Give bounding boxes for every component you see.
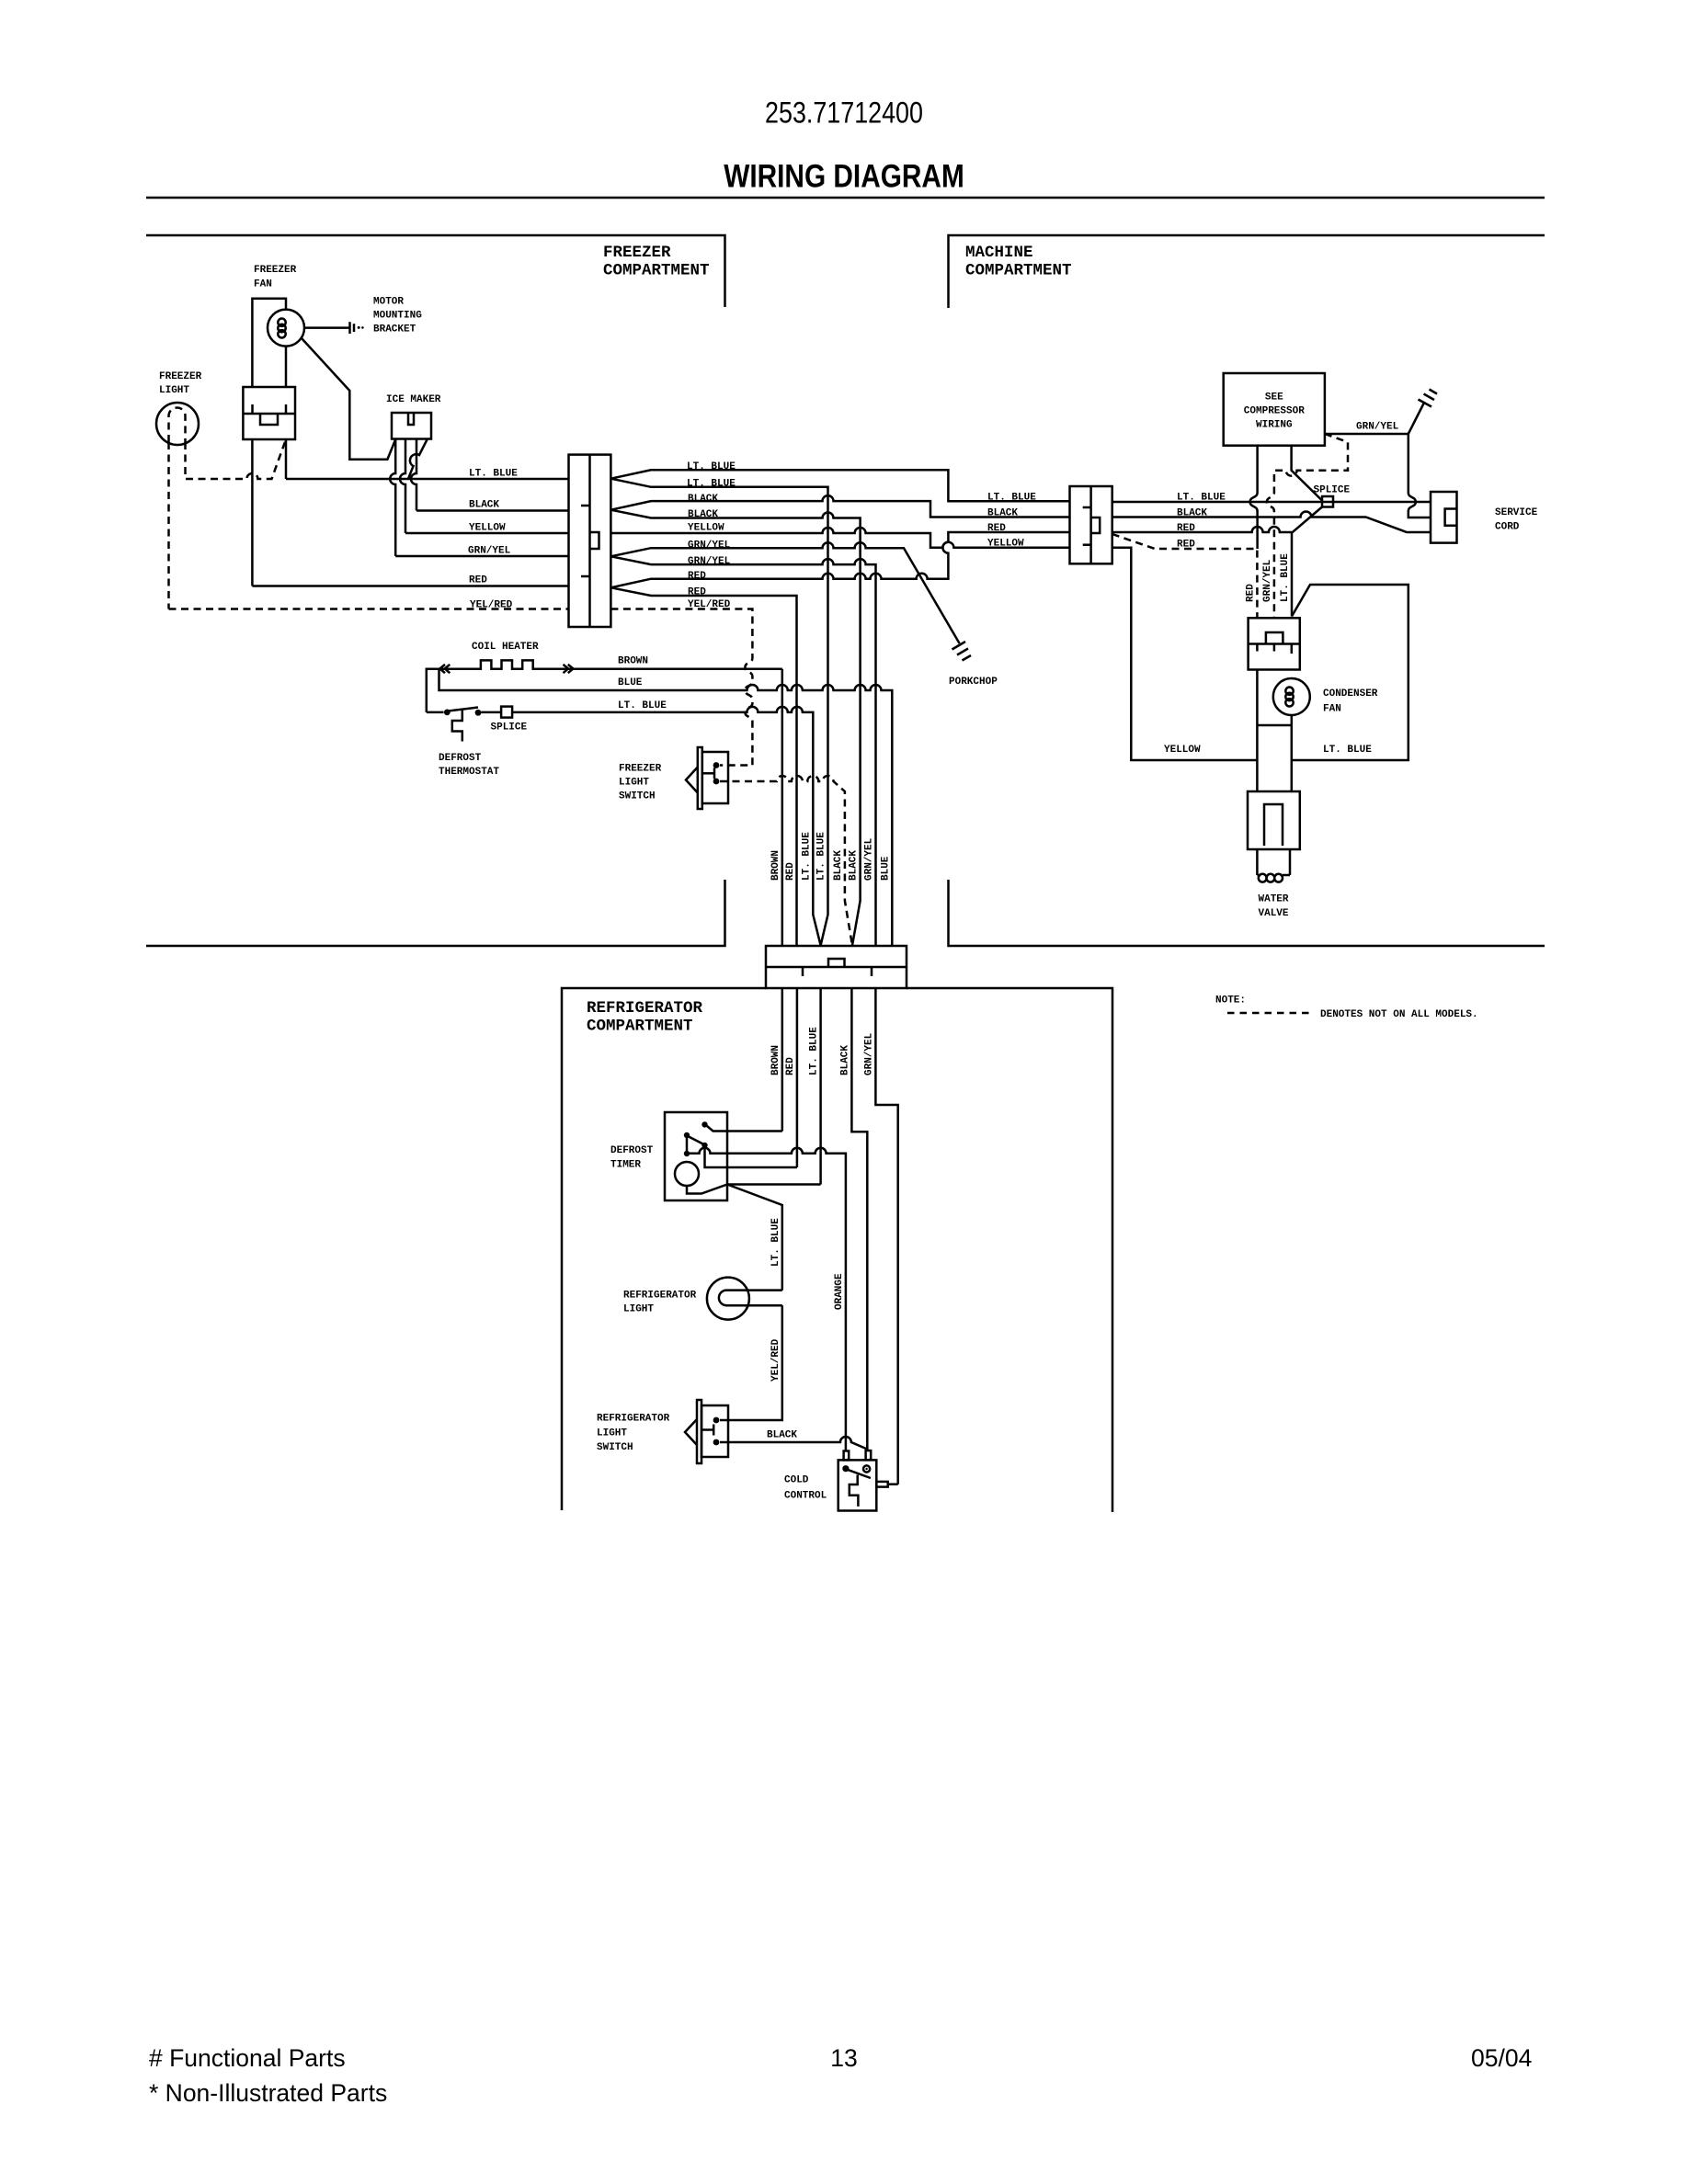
label LT. BLUE row2 — [687, 479, 736, 490]
title model number — [765, 97, 923, 130]
wire RED row1 to machine connector — [610, 532, 1069, 587]
label ORANGE rotated — [834, 1273, 845, 1310]
svg-text:BLACK: BLACK — [833, 850, 844, 881]
service cord connector — [1431, 492, 1457, 543]
label YELLOW machine left — [987, 539, 1024, 550]
svg-text:COMPARTMENT: COMPARTMENT — [965, 262, 1072, 280]
note dashed sample — [1227, 1012, 1314, 1015]
svg-text:FAN: FAN — [1323, 704, 1341, 715]
svg-text:GRN/YEL: GRN/YEL — [863, 1032, 874, 1075]
svg-text:ICE MAKER: ICE MAKER — [386, 394, 441, 405]
label BLACK — [469, 500, 499, 511]
svg-text:NOTE:: NOTE: — [1215, 995, 1246, 1007]
machine compartment bottom border — [949, 880, 1545, 946]
svg-text:WIRING: WIRING — [1256, 420, 1293, 431]
label RED machine right — [1177, 523, 1195, 534]
ice maker — [392, 413, 431, 439]
label BROWN rotated upper — [770, 850, 781, 881]
ice maker pin 2 wire to YELLOW — [400, 439, 405, 533]
wire RED to connector — [252, 585, 568, 587]
svg-text:LT. BLUE: LT. BLUE — [770, 1218, 781, 1267]
label DEFROST THERMOSTAT — [439, 753, 499, 778]
svg-text:COMPARTMENT: COMPARTMENT — [603, 262, 710, 280]
label PORKCHOP — [949, 677, 998, 688]
label ICE MAKER — [386, 394, 441, 405]
label BLUE — [618, 677, 643, 688]
wire defrost timer to ORANGE — [687, 1148, 846, 1451]
svg-text:CONDENSER: CONDENSER — [1323, 688, 1378, 700]
svg-text:ORANGE: ORANGE — [834, 1273, 845, 1310]
wire YELLOW enclosure — [1112, 548, 1258, 760]
wire YELLOW to connector — [405, 532, 569, 535]
wire YELLOW to machine connector — [610, 528, 1069, 548]
machine connector J2 — [1070, 486, 1112, 563]
freezer light lamp — [156, 403, 199, 445]
svg-text:BLACK: BLACK — [987, 508, 1018, 519]
label MOTOR MOUNTING BRACKET — [373, 297, 422, 336]
svg-text:MOUNTING: MOUNTING — [373, 311, 422, 322]
wire BLACK row2 down to refrigerator — [610, 510, 860, 946]
label LT. BLUE rotated — [1280, 553, 1291, 602]
svg-text:BRACKET: BRACKET — [373, 324, 416, 336]
svg-text:LT. BLUE: LT. BLUE — [469, 469, 518, 480]
svg-text:FREEZER: FREEZER — [159, 371, 202, 382]
svg-text:VALVE: VALVE — [1259, 908, 1289, 919]
label YEL/RED row — [688, 599, 731, 610]
svg-text:RED: RED — [688, 571, 706, 582]
wire compressor to splice — [1292, 446, 1322, 501]
svg-text:TIMER: TIMER — [610, 1160, 641, 1171]
wire GRN/YEL row2 down to refrigerator — [610, 556, 875, 946]
svg-text:BLACK: BLACK — [849, 850, 860, 881]
svg-text:DEFROST: DEFROST — [610, 1145, 654, 1156]
defrost thermostat switch — [444, 708, 481, 742]
label RED rotated — [1245, 584, 1256, 602]
footer date — [1471, 2044, 1532, 2072]
wire YEL/RED to light switch — [720, 1305, 782, 1420]
label RED row2 — [688, 587, 706, 598]
freezer fan housing — [252, 299, 286, 387]
label LT. BLUE rotated lower — [809, 1027, 820, 1075]
wire splice to LT. BLUE condenser lead — [1292, 507, 1322, 617]
label REFRIGERATOR LIGHT — [623, 1291, 697, 1315]
svg-text:GRN/YEL: GRN/YEL — [1356, 422, 1399, 433]
svg-text:BLACK: BLACK — [469, 500, 499, 511]
ice maker pin 3 wire to BLACK — [411, 439, 416, 511]
label FREEZER LIGHT — [159, 371, 202, 396]
wire defrost timer to BROWN — [707, 1126, 782, 1132]
svg-text:YELLOW: YELLOW — [469, 523, 506, 534]
svg-text:YEL/RED: YEL/RED — [770, 1338, 781, 1382]
label FREEZER FAN — [254, 265, 297, 290]
label RED rotated lower — [785, 1057, 796, 1075]
refrigerator compartment border — [562, 988, 1112, 1512]
label DEFROST TIMER — [610, 1145, 654, 1171]
label YEL/RED — [470, 600, 513, 611]
cold control — [838, 1450, 898, 1510]
label LT. BLUE rotated upper 1 — [801, 832, 812, 881]
refrigerator light lamp — [707, 1278, 782, 1320]
svg-text:MOTOR: MOTOR — [373, 297, 404, 308]
label BLACK machine right — [1177, 508, 1207, 519]
label MACHINE COMPARTMENT — [965, 244, 1072, 280]
svg-text:LIGHT: LIGHT — [597, 1428, 627, 1439]
label LT. BLUE rotated upper 2 — [816, 832, 827, 881]
wire BLACK to service cord — [1112, 512, 1431, 533]
label NOTE — [1215, 995, 1246, 1007]
label LT. BLUE machine left — [987, 493, 1036, 504]
wire condenser fan loop — [1249, 670, 1292, 792]
label BLACK rotated upper 2 — [849, 850, 860, 881]
svg-text:GRN/YEL: GRN/YEL — [864, 837, 875, 881]
wire BROWN down to junction connector — [781, 669, 784, 946]
footer functional parts — [149, 2044, 346, 2072]
svg-text:YELLOW: YELLOW — [688, 523, 724, 534]
svg-text:BLACK: BLACK — [839, 1045, 850, 1075]
svg-text:SPLICE: SPLICE — [1314, 485, 1351, 496]
title WIRING DIAGRAM — [724, 157, 964, 194]
svg-text:LT. BLUE: LT. BLUE — [1323, 745, 1372, 756]
ice maker pin 1 wire to GRN/YEL — [390, 439, 395, 556]
label BLACK row2 — [688, 509, 718, 520]
svg-text:FREEZER: FREEZER — [619, 764, 662, 775]
svg-text:DEFROST: DEFROST — [439, 753, 482, 764]
svg-text:# Functional Parts: # Functional Parts — [149, 2044, 346, 2072]
label LT. BLUE heater row — [618, 700, 667, 711]
svg-text:253.71712400: 253.71712400 — [765, 97, 923, 130]
label SPLICE 2 — [1314, 485, 1351, 496]
svg-text:13: 13 — [830, 2044, 857, 2072]
refrigerator light switch — [685, 1400, 728, 1463]
label RED machine right dashed — [1177, 540, 1195, 551]
svg-text:COMPRESSOR: COMPRESSOR — [1244, 406, 1305, 417]
freezer fan motor M1 — [268, 310, 304, 347]
label SPLICE — [491, 722, 528, 734]
splice 2 — [1322, 496, 1333, 507]
label FREEZER COMPARTMENT — [603, 244, 710, 280]
wire BLACK below connector — [851, 988, 867, 1450]
label RED rotated upper — [785, 862, 796, 881]
wire LT. BLUE row2 down to refrigerator — [610, 479, 827, 946]
svg-text:FREEZER: FREEZER — [603, 244, 671, 262]
label YELLOW enclosure — [1164, 745, 1201, 756]
label LT. BLUE — [469, 469, 518, 480]
label BLACK machine left — [987, 508, 1018, 519]
label GRN/YEL rotated lower — [863, 1032, 874, 1075]
label BLACK rotated upper 1 — [833, 850, 844, 881]
svg-text:GRN/YEL: GRN/YEL — [468, 546, 511, 557]
wire LT. BLUE thermostat line — [427, 707, 821, 946]
wire freezer light switch to BLACK dashed — [720, 776, 852, 946]
svg-text:* Non-Illustrated Parts: * Non-Illustrated Parts — [149, 2079, 387, 2107]
svg-text:RED: RED — [785, 862, 796, 881]
wire GRN/YEL row1 to porkchop — [610, 542, 959, 643]
antenna ground symbol — [1419, 390, 1438, 407]
label BLACK row1 — [688, 494, 718, 505]
label GRN/YEL row2 — [688, 556, 731, 567]
wire YEL/RED dashed to freezer light switch — [610, 609, 752, 766]
svg-text:RED: RED — [469, 575, 487, 586]
wire RED below connector — [796, 988, 799, 1167]
top rule — [146, 197, 1545, 199]
svg-text:WIRING DIAGRAM: WIRING DIAGRAM — [724, 157, 964, 194]
svg-text:REFRIGERATOR: REFRIGERATOR — [597, 1414, 670, 1425]
label LT. BLUE machine right — [1177, 493, 1226, 504]
wire LT. BLUE below connector — [819, 988, 822, 1185]
svg-text:PORKCHOP: PORKCHOP — [949, 677, 998, 688]
wire BLUE to junction connector — [439, 668, 893, 946]
svg-text:DENOTES NOT ON ALL MODELS.: DENOTES NOT ON ALL MODELS. — [1320, 1009, 1478, 1020]
condenser fan motor — [1273, 678, 1310, 715]
svg-text:FAN: FAN — [254, 279, 272, 290]
label BROWN rotated lower — [770, 1045, 781, 1075]
label RED row1 — [688, 571, 706, 582]
wire LT. BLUE to connector — [286, 478, 569, 481]
label SERVICE CORD — [1495, 507, 1538, 533]
wire RED row2 down to refrigerator — [610, 587, 796, 946]
footer page number — [830, 2044, 857, 2072]
wire LT. BLUE enclosure — [1292, 585, 1409, 760]
svg-text:YEL/RED: YEL/RED — [470, 600, 513, 611]
wire YEL/RED dashed to connector — [169, 608, 569, 610]
label BLACK rotated lower — [839, 1045, 850, 1075]
freezer fan connector — [243, 387, 295, 439]
label CONDENSER FAN — [1323, 688, 1378, 715]
wire BLACK row1 to machine connector — [610, 495, 1069, 517]
freezer compartment border — [146, 235, 725, 307]
svg-text:CORD: CORD — [1495, 522, 1520, 533]
svg-text:LT. BLUE: LT. BLUE — [1280, 553, 1291, 602]
wire defrost timer motor to LT. BLUE — [727, 1183, 821, 1186]
svg-text:WATER: WATER — [1259, 894, 1289, 905]
label GRN/YEL antenna — [1356, 422, 1399, 433]
wire compressor GRN/YEL dashed to condenser connector — [1267, 434, 1348, 618]
label GRN/YEL row1 — [688, 540, 731, 552]
wire BLACK to connector — [416, 509, 569, 512]
wire LT. BLUE to refrigerator light — [727, 1185, 782, 1291]
svg-text:BLACK: BLACK — [767, 1430, 797, 1441]
svg-text:FREEZER: FREEZER — [254, 265, 297, 276]
svg-text:05/04: 05/04 — [1471, 2044, 1532, 2072]
defrost timer — [665, 1112, 727, 1200]
wire LT. BLUE to service cord via splice — [1112, 501, 1431, 504]
label YELLOW — [469, 523, 506, 534]
label GRN/YEL — [468, 546, 511, 557]
wire LT. BLUE row1 to machine connector — [610, 470, 1069, 501]
machine compartment border — [949, 235, 1545, 308]
svg-text:GRN/YEL: GRN/YEL — [688, 540, 731, 552]
note text — [1320, 1009, 1478, 1020]
label FREEZER LIGHT SWITCH — [619, 764, 662, 802]
svg-text:RED: RED — [1245, 584, 1256, 602]
svg-text:LT. BLUE: LT. BLUE — [801, 832, 812, 881]
wire fan right lead to LT. BLUE — [285, 439, 288, 479]
junction connector J3 — [766, 946, 907, 988]
svg-text:BROWN: BROWN — [618, 656, 648, 667]
wire compressor to condenser connector — [1250, 446, 1258, 549]
condenser fan connector — [1249, 618, 1300, 669]
svg-text:SWITCH: SWITCH — [619, 791, 656, 802]
label BLACK switch wire — [767, 1430, 797, 1441]
label REFRIGERATOR COMPARTMENT — [587, 999, 703, 1036]
freezer compartment bottom border — [146, 880, 725, 946]
splice on LT. BLUE — [501, 707, 512, 718]
label BLUE rotated upper — [880, 856, 891, 881]
ice maker pin 4 wire to LT. BLUE — [408, 439, 428, 479]
coil heater element — [427, 660, 782, 712]
svg-text:REFRIGERATOR: REFRIGERATOR — [587, 999, 703, 1018]
freezer light switch — [686, 747, 728, 809]
svg-text:THERMOSTAT: THERMOSTAT — [439, 767, 499, 778]
svg-text:GRN/YEL: GRN/YEL — [1262, 559, 1273, 602]
svg-text:REFRIGERATOR: REFRIGERATOR — [623, 1291, 697, 1302]
svg-text:COLD: COLD — [784, 1475, 809, 1486]
svg-text:BLUE: BLUE — [618, 677, 643, 688]
label SEE COMPRESSOR WIRING box — [1224, 373, 1325, 446]
label BROWN — [618, 656, 648, 667]
label GRN/YEL rotated — [1262, 559, 1273, 602]
label RED — [469, 575, 487, 586]
label REFRIGERATOR LIGHT SWITCH — [597, 1414, 670, 1454]
porkchop ground symbol — [952, 642, 972, 661]
svg-text:MACHINE: MACHINE — [965, 244, 1033, 262]
svg-text:YELLOW: YELLOW — [1164, 745, 1201, 756]
label LT. BLUE rotated mid — [770, 1218, 781, 1267]
label YELLOW row — [688, 523, 724, 534]
svg-text:SERVICE: SERVICE — [1495, 507, 1538, 518]
svg-text:COMPARTMENT: COMPARTMENT — [587, 1018, 693, 1036]
wire GRN/YEL to connector — [395, 555, 568, 558]
label COLD CONTROL — [784, 1475, 827, 1502]
freezer connector J1 — [569, 455, 611, 627]
svg-text:SPLICE: SPLICE — [491, 722, 528, 734]
motor mounting bracket symbol — [304, 322, 364, 334]
label LT. BLUE enclosure — [1323, 745, 1372, 756]
wire GRN/YEL to antenna and service cord — [1325, 402, 1431, 518]
wire fan left lead down — [251, 439, 254, 586]
svg-text:LT. BLUE: LT. BLUE — [809, 1027, 820, 1075]
label RED machine left — [987, 523, 1006, 534]
label YEL/RED rotated — [770, 1338, 781, 1382]
svg-text:BROWN: BROWN — [770, 1045, 781, 1075]
wire freezer light to YEL/RED (dashed) — [167, 442, 170, 609]
svg-text:LIGHT: LIGHT — [623, 1304, 654, 1315]
label WATER VALVE — [1259, 894, 1289, 920]
wire fan motor to ice maker — [302, 338, 395, 460]
svg-text:BROWN: BROWN — [770, 850, 781, 881]
wire RED dashed to condenser connector — [1112, 534, 1258, 618]
svg-text:LIGHT: LIGHT — [159, 385, 189, 396]
svg-text:CONTROL: CONTROL — [784, 1491, 827, 1502]
svg-text:SWITCH: SWITCH — [597, 1442, 633, 1453]
wire GRN/YEL below connector — [875, 988, 897, 1484]
svg-text:RED: RED — [987, 523, 1006, 534]
svg-text:LT. BLUE: LT. BLUE — [987, 493, 1036, 504]
svg-text:LT. BLUE: LT. BLUE — [816, 832, 827, 881]
svg-text:BLACK: BLACK — [688, 494, 718, 505]
svg-text:RED: RED — [785, 1057, 796, 1075]
svg-text:SEE: SEE — [1265, 392, 1283, 404]
svg-text:LIGHT: LIGHT — [619, 778, 649, 789]
svg-text:LT. BLUE: LT. BLUE — [618, 700, 667, 711]
label LT. BLUE row1 — [687, 461, 736, 472]
svg-text:YELLOW: YELLOW — [987, 539, 1024, 550]
wire freezer light to fan connector (dashed) — [186, 439, 287, 479]
footer non-illustrated parts — [149, 2079, 387, 2107]
label GRN/YEL rotated upper — [864, 837, 875, 881]
wire RED to splice junction — [1112, 527, 1292, 532]
water valve — [1248, 791, 1300, 882]
wire defrost timer contact to RED — [705, 1148, 797, 1167]
wire BLACK light switch to cold control — [720, 1437, 868, 1450]
svg-text:BLUE: BLUE — [880, 856, 891, 881]
svg-text:COIL HEATER: COIL HEATER — [472, 642, 539, 653]
label COIL HEATER — [472, 642, 539, 653]
wire BROWN below connector — [781, 988, 784, 1132]
